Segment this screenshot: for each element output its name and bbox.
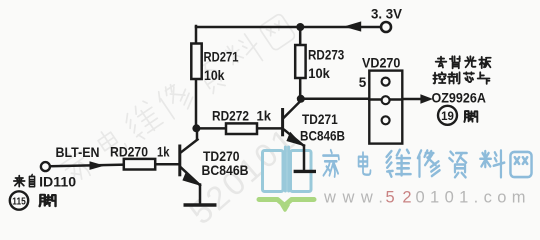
svg-text:1k: 1k bbox=[157, 144, 170, 160]
url watermark www.520101.com bbox=[323, 189, 526, 207]
resistor RD272 bbox=[226, 123, 257, 134]
svg-text:ID110: ID110 bbox=[39, 174, 76, 190]
transistor TD271 bbox=[283, 101, 304, 170]
svg-text:RD272: RD272 bbox=[212, 108, 249, 124]
svg-text:19: 19 bbox=[441, 111, 454, 123]
logo green base bbox=[259, 200, 314, 211]
svg-text:10k: 10k bbox=[308, 65, 330, 81]
logo open book bbox=[263, 147, 312, 192]
label 脚 (pin) right bbox=[464, 111, 477, 122]
svg-text:5: 5 bbox=[359, 74, 367, 90]
wire VD270 through bbox=[369, 98, 402, 101]
big blue watermark 家电维修资料网 bbox=[323, 150, 532, 178]
resistor RD273 bbox=[295, 45, 305, 78]
svg-text:BC846B: BC846B bbox=[300, 128, 345, 144]
node A junction dot bbox=[192, 124, 200, 132]
svg-text:RD271: RD271 bbox=[204, 49, 239, 65]
label 控制芯片 bbox=[433, 72, 489, 83]
3.3V arrow bbox=[344, 21, 362, 31]
wire node C to VD270 bbox=[305, 98, 370, 101]
svg-text:3. 3V: 3. 3V bbox=[371, 6, 403, 22]
wire node A to RD272 bbox=[196, 127, 226, 130]
svg-text:TD271: TD271 bbox=[302, 111, 338, 127]
resistor RD270 bbox=[124, 159, 155, 170]
ground TD270 bbox=[184, 203, 217, 207]
svg-text:BLT-EN: BLT-EN bbox=[56, 144, 100, 160]
label 去背光板 bbox=[436, 56, 491, 68]
svg-text:0101.com: 0101.com bbox=[416, 189, 526, 207]
input terminal circle bbox=[41, 162, 50, 171]
left page bbox=[263, 151, 284, 192]
svg-text:1k: 1k bbox=[257, 108, 272, 124]
svg-text:115: 115 bbox=[12, 196, 26, 208]
connector VD270 bbox=[369, 71, 402, 144]
svg-text:RD270: RD270 bbox=[110, 144, 148, 160]
wire RD273 bottom leg bbox=[299, 78, 302, 96]
label 来自ID110 bbox=[14, 175, 35, 187]
output arrow to OZ9926A bbox=[420, 94, 433, 103]
3.3V terminal circle bbox=[381, 22, 391, 32]
faint diagonal watermark 520101 bbox=[182, 119, 303, 231]
svg-text:VD270: VD270 bbox=[362, 54, 401, 70]
resistor RD271 bbox=[191, 44, 201, 80]
node C junction dot bbox=[297, 95, 305, 103]
ground TD271 bbox=[294, 170, 316, 173]
svg-text:BC846B: BC846B bbox=[202, 162, 249, 178]
svg-text:RD273: RD273 bbox=[308, 47, 344, 63]
transistor TD270 bbox=[180, 130, 200, 204]
wire input to RD270 bbox=[51, 165, 124, 167]
svg-text:52: 52 bbox=[386, 189, 412, 207]
pin 115 circled bbox=[10, 191, 28, 209]
wire RD272 to TD271 base bbox=[257, 127, 282, 130]
svg-text:10k: 10k bbox=[204, 67, 225, 83]
wire through VD270 bbox=[369, 98, 402, 101]
wire VD270 output bbox=[402, 98, 421, 101]
pin circles VD270 bbox=[382, 78, 390, 86]
label 脚 (pin) left bbox=[40, 195, 56, 207]
pin 19 circled bbox=[438, 106, 457, 125]
right page bbox=[291, 151, 312, 192]
svg-text:www.: www. bbox=[323, 189, 383, 207]
input arrow bbox=[90, 161, 105, 170]
faint diagonal watermark 家电维修资料网 bbox=[55, 13, 296, 187]
wire RD270 to TD270 base bbox=[155, 163, 178, 166]
wire RD271 bottom leg bbox=[195, 79, 198, 128]
wire RD271 top leg bbox=[195, 26, 198, 44]
wire RD273 top leg bbox=[299, 27, 302, 45]
svg-text:OZ9926A: OZ9926A bbox=[432, 90, 486, 106]
node B junction dot bbox=[296, 23, 304, 31]
wire top rail 3.3V bbox=[196, 26, 381, 29]
spine lines bbox=[285, 147, 288, 191]
